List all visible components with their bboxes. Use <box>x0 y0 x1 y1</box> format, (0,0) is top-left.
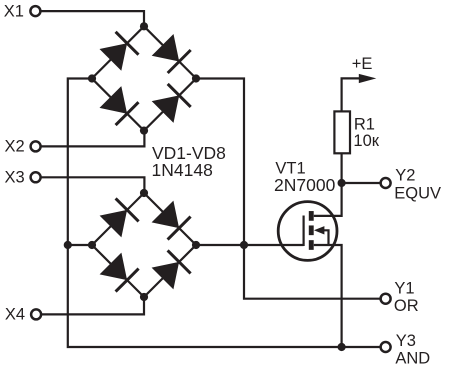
svg-text:AND: AND <box>395 350 430 367</box>
svg-text:+E: +E <box>352 55 373 73</box>
svg-text:R1: R1 <box>354 115 375 133</box>
svg-text:EQUV: EQUV <box>394 185 441 203</box>
svg-text:X1: X1 <box>4 3 24 21</box>
svg-text:10к: 10к <box>353 132 379 150</box>
svg-text:1N4148: 1N4148 <box>152 160 213 180</box>
svg-text:2N7000: 2N7000 <box>274 175 336 195</box>
svg-text:Y3: Y3 <box>396 332 416 350</box>
svg-text:X4: X4 <box>5 306 25 324</box>
svg-text:Y2: Y2 <box>395 167 415 185</box>
svg-text:OR: OR <box>394 297 419 315</box>
svg-text:X2: X2 <box>5 137 25 155</box>
svg-text:Y1: Y1 <box>394 280 414 298</box>
svg-text:X3: X3 <box>5 168 25 186</box>
